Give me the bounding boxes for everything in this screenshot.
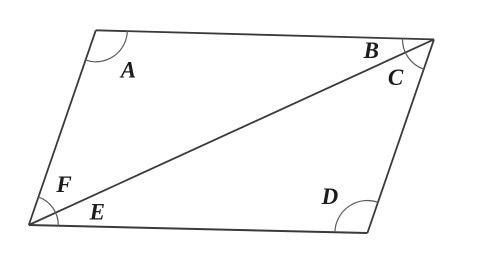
svg-text:D: D bbox=[321, 184, 339, 209]
node A angle arc bbox=[86, 31, 128, 62]
node E F angle arc bbox=[38, 197, 58, 226]
wire diagonal BL-TR bbox=[29, 39, 434, 225]
svg-text:C: C bbox=[388, 65, 404, 90]
wire right edge TR-BR bbox=[367, 39, 434, 233]
svg-text:B: B bbox=[363, 38, 379, 63]
node D angle arc bbox=[335, 201, 378, 233]
wire left edge TL-BL bbox=[29, 30, 96, 225]
node B C angle arc bbox=[402, 39, 423, 70]
svg-text:A: A bbox=[119, 57, 136, 82]
svg-text:E: E bbox=[89, 199, 105, 224]
wire top edge TL-TR bbox=[96, 30, 434, 39]
svg-text:F: F bbox=[55, 172, 71, 197]
wire bottom edge BL-BR bbox=[29, 225, 368, 233]
